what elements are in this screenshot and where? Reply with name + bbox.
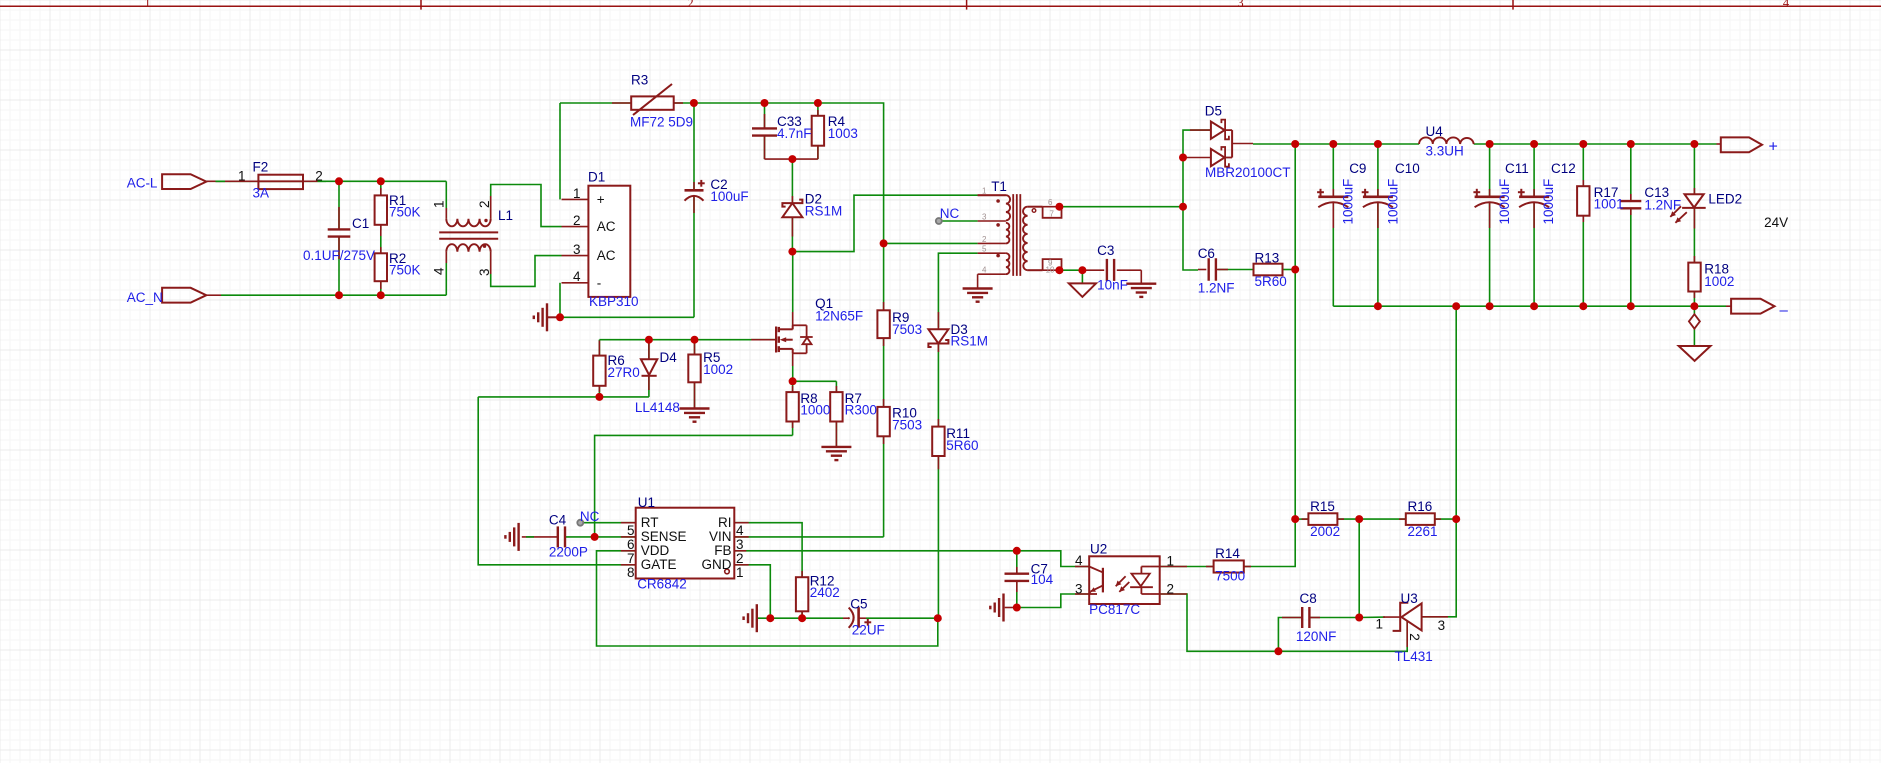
svg-text:2: 2: [1407, 633, 1422, 641]
svg-text:D5: D5: [1205, 104, 1222, 119]
svg-text:6: 6: [1048, 198, 1053, 207]
svg-text:1: 1: [736, 565, 744, 580]
svg-text:1001: 1001: [1594, 197, 1624, 212]
svg-text:750K: 750K: [389, 205, 421, 220]
svg-text:D1: D1: [588, 170, 605, 185]
svg-text:12N65F: 12N65F: [815, 309, 863, 324]
svg-text:1: 1: [144, 0, 150, 10]
svg-text:1000uF: 1000uF: [1497, 179, 1512, 225]
svg-text:PC817C: PC817C: [1089, 602, 1140, 617]
svg-text:AC-L: AC-L: [127, 176, 158, 191]
svg-text:2: 2: [477, 200, 492, 208]
svg-text:C4: C4: [549, 513, 567, 528]
svg-text:7503: 7503: [892, 418, 922, 433]
svg-text:7: 7: [627, 551, 635, 566]
svg-text:GND: GND: [702, 557, 732, 572]
svg-text:U1: U1: [638, 495, 655, 510]
svg-text:8: 8: [627, 565, 635, 580]
svg-text:R14: R14: [1215, 546, 1240, 561]
svg-text:2200P: 2200P: [549, 545, 588, 560]
svg-text:2261: 2261: [1408, 524, 1438, 539]
svg-text:750K: 750K: [389, 263, 421, 278]
svg-text:T1: T1: [991, 179, 1007, 194]
svg-text:4: 4: [432, 267, 447, 275]
svg-text:4: 4: [573, 269, 581, 284]
svg-text:1.2NF: 1.2NF: [1198, 281, 1235, 296]
svg-text:R16: R16: [1408, 499, 1433, 514]
svg-text:VIN: VIN: [709, 529, 732, 544]
svg-text:3: 3: [477, 268, 492, 276]
svg-text:R300: R300: [845, 403, 877, 418]
svg-text:NC: NC: [940, 206, 960, 221]
svg-text:3: 3: [982, 213, 987, 222]
svg-text:+: +: [597, 192, 605, 207]
svg-text:1000uF: 1000uF: [1541, 179, 1556, 225]
svg-text:R15: R15: [1310, 499, 1335, 514]
svg-text:4: 4: [1075, 553, 1083, 568]
svg-text:5: 5: [627, 523, 635, 538]
svg-text:2002: 2002: [1310, 524, 1340, 539]
svg-text:1: 1: [1167, 554, 1175, 569]
svg-text:C12: C12: [1551, 161, 1576, 176]
svg-text:2: 2: [736, 551, 744, 566]
svg-text:2: 2: [687, 0, 693, 10]
svg-text:MBR20100CT: MBR20100CT: [1205, 165, 1291, 180]
svg-text:C10: C10: [1395, 161, 1420, 176]
svg-text:6: 6: [627, 537, 635, 552]
svg-text:1: 1: [573, 186, 581, 201]
svg-text:C5: C5: [850, 597, 867, 612]
svg-text:SENSE: SENSE: [641, 529, 687, 544]
svg-text:U2: U2: [1090, 542, 1107, 557]
svg-text:AC_N: AC_N: [127, 290, 163, 305]
svg-text:R13: R13: [1255, 251, 1280, 266]
svg-text:RT: RT: [641, 515, 659, 530]
svg-text:C9: C9: [1349, 161, 1366, 176]
svg-text:AC: AC: [597, 248, 616, 263]
svg-text:LL4148: LL4148: [635, 400, 680, 415]
svg-text:3.3UH: 3.3UH: [1426, 144, 1464, 159]
svg-text:VDD: VDD: [641, 543, 670, 558]
svg-text:MF72 5D9: MF72 5D9: [630, 115, 693, 130]
svg-text:CR6842: CR6842: [637, 577, 687, 592]
svg-text:FB: FB: [714, 543, 731, 558]
svg-text:KBP310: KBP310: [589, 294, 639, 309]
svg-text:-: -: [597, 275, 602, 290]
svg-text:1: 1: [982, 187, 987, 196]
svg-text:7500: 7500: [1215, 569, 1245, 584]
svg-text:120NF: 120NF: [1296, 629, 1337, 644]
svg-text:5R60: 5R60: [946, 438, 978, 453]
svg-text:NC: NC: [580, 509, 600, 524]
svg-text:–: –: [1780, 302, 1789, 319]
svg-text:10nF: 10nF: [1097, 278, 1128, 293]
svg-text:C3: C3: [1097, 243, 1114, 258]
svg-text:1003: 1003: [828, 126, 858, 141]
svg-text:2: 2: [982, 235, 987, 244]
svg-text:2: 2: [315, 168, 323, 183]
svg-text:C6: C6: [1198, 246, 1215, 261]
svg-text:+: +: [1769, 139, 1778, 156]
svg-text:5R60: 5R60: [1255, 274, 1287, 289]
svg-text:1000uF: 1000uF: [1341, 179, 1356, 225]
svg-text:100uF: 100uF: [710, 189, 748, 204]
svg-text:1000uF: 1000uF: [1386, 179, 1401, 225]
svg-text:AC: AC: [597, 219, 616, 234]
svg-text:1002: 1002: [1704, 274, 1734, 289]
svg-text:RI: RI: [718, 515, 732, 530]
svg-text:TL431: TL431: [1395, 649, 1433, 664]
svg-text:4: 4: [1783, 0, 1790, 10]
svg-text:7503: 7503: [892, 322, 922, 337]
svg-text:2402: 2402: [810, 585, 840, 600]
svg-text:22UF: 22UF: [852, 623, 885, 638]
svg-text:3A: 3A: [253, 186, 270, 201]
svg-text:U4: U4: [1426, 124, 1444, 139]
svg-text:GATE: GATE: [641, 557, 677, 572]
svg-text:C1: C1: [352, 216, 369, 231]
svg-text:R3: R3: [631, 73, 648, 88]
svg-text:3: 3: [1438, 618, 1446, 633]
svg-text:4: 4: [736, 523, 744, 538]
svg-text:3: 3: [1237, 0, 1243, 10]
svg-text:C11: C11: [1505, 161, 1529, 176]
svg-text:1.2NF: 1.2NF: [1644, 198, 1681, 213]
svg-text:1: 1: [1376, 616, 1384, 631]
svg-text:F2: F2: [253, 160, 269, 175]
svg-text:104: 104: [1031, 572, 1054, 587]
svg-text:RS1M: RS1M: [805, 204, 843, 219]
svg-text:D4: D4: [660, 350, 678, 365]
svg-text:3: 3: [1075, 582, 1083, 597]
svg-text:1000: 1000: [800, 403, 830, 418]
svg-text:3: 3: [573, 242, 581, 257]
svg-text:2: 2: [573, 213, 581, 228]
svg-text:1: 1: [432, 200, 447, 208]
svg-text:24V: 24V: [1764, 215, 1788, 230]
svg-text:10: 10: [1046, 265, 1055, 274]
svg-text:0.1UF/275V: 0.1UF/275V: [303, 248, 375, 263]
svg-text:C8: C8: [1300, 591, 1317, 606]
svg-text:RS1M: RS1M: [951, 334, 989, 349]
svg-text:U3: U3: [1401, 591, 1418, 606]
svg-text:2: 2: [1167, 582, 1175, 597]
svg-text:27R0: 27R0: [608, 365, 640, 380]
svg-text:7: 7: [1050, 209, 1055, 218]
svg-text:4: 4: [982, 266, 987, 275]
svg-text:1002: 1002: [703, 362, 733, 377]
svg-text:L1: L1: [498, 208, 513, 223]
svg-text:LED2: LED2: [1708, 192, 1742, 207]
svg-text:1: 1: [238, 168, 246, 183]
svg-text:4.7nF: 4.7nF: [777, 126, 812, 141]
svg-text:3: 3: [736, 537, 744, 552]
svg-text:5: 5: [982, 245, 987, 254]
